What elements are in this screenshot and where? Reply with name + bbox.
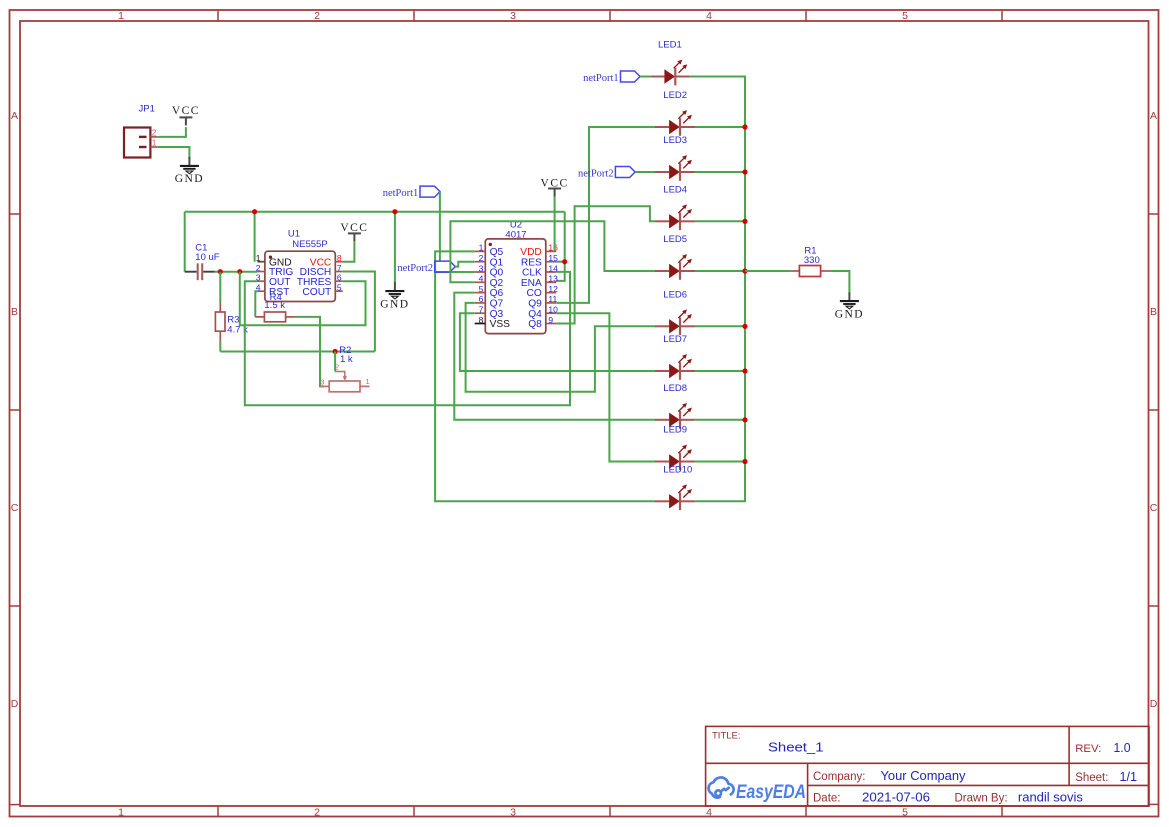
svg-text:LED8: LED8 [663, 383, 687, 394]
U2 pin 1 Q5 [475, 250, 486, 252]
node junction bus LED6 [742, 324, 747, 329]
wire LED2 cathode to bus [695, 126, 746, 128]
wire U2 Q8 to LED4 [556, 206, 655, 323]
node junction TRIG-THRES riser [237, 269, 242, 274]
wire U2 Q7 to LED6 [466, 303, 655, 392]
U2 pin 14 CLK [546, 271, 556, 273]
svg-text:12: 12 [548, 284, 558, 294]
wire U2 Q5 to LED10 [435, 251, 655, 501]
U2 pin 3 Q0 [475, 271, 486, 273]
node junction bus LED7 [742, 368, 747, 373]
potentiometer R2 [329, 381, 360, 392]
wire U2 Q6 to LED8 [454, 293, 655, 420]
wire GND rail horizontal [185, 211, 565, 213]
title block [706, 726, 1149, 806]
svg-text:4: 4 [706, 10, 712, 22]
svg-text:8: 8 [337, 253, 342, 263]
node junction bus LED3 [742, 169, 747, 174]
svg-text:LED5: LED5 [663, 234, 687, 245]
U2 pin 7 Q3 [475, 312, 486, 314]
U1 pin 6 THRES [335, 280, 343, 282]
svg-text:1.0: 1.0 [1114, 740, 1131, 755]
svg-text:netPort2: netPort2 [397, 263, 433, 274]
svg-text:330: 330 [804, 255, 820, 266]
wire netPort1 down [439, 192, 441, 262]
svg-text:11: 11 [548, 294, 557, 304]
U1 pin 7 DISCH [335, 271, 343, 273]
wire LED9 cathode to bus [695, 461, 746, 463]
U1 pin 8 VCC [335, 261, 343, 263]
svg-text:randil sovis: randil sovis [1018, 790, 1084, 805]
svg-text:Q8: Q8 [528, 319, 542, 330]
svg-text:A: A [1150, 110, 1157, 122]
wire U1 RST to R4 [255, 291, 257, 317]
svg-text:Date:: Date: [813, 793, 841, 805]
connector JP1 [124, 128, 150, 158]
svg-text:LED10: LED10 [663, 464, 692, 475]
netPort1 flag (to U2 area) [420, 186, 440, 197]
svg-text:1 k: 1 k [340, 354, 353, 365]
svg-text:LED6: LED6 [663, 289, 687, 300]
svg-text:2021-07-06: 2021-07-06 [862, 790, 930, 805]
wire R1 to GND [831, 271, 850, 292]
svg-text:GND: GND [380, 298, 409, 310]
wire U1 DISCH to R2 rail [343, 272, 375, 352]
wire VCC to U2 VDD [554, 197, 556, 252]
svg-text:1: 1 [366, 377, 370, 386]
svg-text:3: 3 [479, 263, 484, 273]
svg-text:15: 15 [548, 253, 558, 263]
wire U2 Q0 stub [435, 271, 475, 273]
svg-text:B: B [1150, 306, 1157, 318]
node junction C1-R3 [218, 269, 223, 274]
wire LED4 cathode to bus [695, 220, 746, 222]
svg-text:C: C [11, 502, 19, 514]
svg-text:1: 1 [479, 243, 484, 253]
svg-text:D: D [11, 698, 19, 710]
svg-text:6: 6 [337, 273, 342, 283]
svg-text:EasyEDA: EasyEDA [736, 782, 806, 803]
U2 pin 13 ENA [546, 281, 556, 283]
wire R4 to R2 pot pin3 [296, 317, 324, 387]
svg-text:netPort2: netPort2 [578, 168, 614, 179]
svg-text:C: C [1150, 502, 1158, 514]
op-amp U2 4017 body [485, 239, 546, 334]
svg-text:1: 1 [152, 137, 157, 147]
svg-text:REV:: REV: [1075, 743, 1101, 755]
svg-text:10 uF: 10 uF [195, 252, 219, 263]
ground symbol at JP1 [188, 157, 190, 166]
svg-text:5: 5 [902, 10, 908, 22]
EasyEDA logo [709, 777, 734, 797]
ground symbol near U1 [394, 282, 396, 291]
svg-text:GND: GND [175, 173, 204, 185]
wire netPort2 to U2 Q1 [455, 262, 474, 267]
svg-text:6: 6 [479, 294, 484, 304]
svg-text:9: 9 [548, 315, 553, 325]
svg-text:7: 7 [479, 305, 484, 315]
svg-text:netPort1: netPort1 [383, 188, 419, 199]
wire JP1 pin2 to VCC [157, 127, 186, 137]
wire LED cathode bus [690, 77, 745, 502]
wire LED3 cathode to bus [695, 171, 746, 173]
wire U2 Q9 to LED2 [556, 127, 655, 303]
svg-text:LED2: LED2 [663, 90, 687, 101]
svg-text:13: 13 [548, 274, 558, 284]
svg-text:2: 2 [335, 363, 339, 372]
wire netPort1 to LED1 [640, 76, 650, 78]
op-amp U1 NE555P body [265, 251, 335, 301]
capacitor C1 [185, 271, 197, 273]
wire C1 to U1 TRIG [215, 271, 258, 273]
node junction rail-U1pin1 [252, 209, 257, 214]
ground symbol at R1 [848, 292, 850, 301]
node junction RES tap [562, 259, 567, 264]
svg-text:1.5 k: 1.5 k [264, 300, 285, 311]
U1 pin 4 RST [257, 290, 265, 292]
netPort2 flag (at U2 Q1) [435, 261, 456, 272]
wire netPort2 to LED3 [635, 171, 655, 173]
U2 pin 12 CO [546, 292, 556, 294]
svg-text:1/1: 1/1 [1120, 769, 1138, 784]
wire GND rail to ground symbol [394, 212, 396, 283]
svg-text:Sheet_1: Sheet_1 [768, 740, 824, 755]
node junction bus LED2 [742, 124, 747, 129]
netPort2 flag at LED3 [615, 167, 635, 178]
svg-text:LED3: LED3 [663, 135, 687, 146]
wire R2 wiper drop [334, 352, 336, 372]
svg-text:COUT: COUT [302, 287, 331, 298]
U2 pin 2 Q1 [475, 261, 486, 263]
netPort1 flag at LED1 [621, 71, 641, 82]
node junction R2 wiper [333, 349, 338, 354]
U2 pin 8 VSS [475, 323, 486, 325]
svg-text:16: 16 [548, 243, 558, 253]
resistor R3 [219, 272, 221, 303]
svg-text:JP1: JP1 [139, 104, 155, 115]
svg-text:VSS: VSS [490, 319, 511, 330]
wire U2 Q2 to LED5 [450, 221, 655, 282]
svg-text:4: 4 [479, 274, 484, 284]
svg-text:2: 2 [256, 263, 261, 273]
svg-text:7: 7 [337, 263, 342, 273]
svg-text:B: B [11, 306, 18, 318]
U2 pin 15 RES [546, 261, 556, 263]
wire LED6 cathode to bus [695, 325, 746, 327]
wire LED8 cathode to bus [695, 419, 746, 421]
wire U2 pin15 RES tap [556, 261, 565, 263]
svg-text:2: 2 [314, 10, 320, 22]
svg-text:2: 2 [314, 806, 320, 818]
svg-text:A: A [11, 110, 18, 122]
svg-text:Drawn By:: Drawn By: [955, 793, 1008, 805]
U2 pin 9 Q8 [546, 323, 556, 325]
node junction bus LED5 [742, 268, 747, 273]
svg-text:LED7: LED7 [663, 334, 687, 345]
wire U1 OUT to U2 CLK [245, 272, 570, 405]
wire U2 Q3 to LED7 [460, 313, 655, 371]
resistor R1 [790, 270, 799, 272]
svg-text:8: 8 [479, 315, 484, 325]
wire LED5 cathode to bus [695, 270, 746, 272]
svg-text:NE555P: NE555P [292, 239, 327, 250]
svg-text:LED1: LED1 [658, 40, 682, 51]
svg-text:TITLE:: TITLE: [712, 731, 741, 742]
resistor R4 [255, 316, 264, 318]
wire LED7 cathode to bus [695, 370, 746, 372]
svg-text:Company:: Company: [813, 771, 865, 783]
wire U1 THRES to TRIG link [240, 272, 366, 326]
wire U1 pin8 to VCC [343, 241, 355, 261]
wire GND rail down to U2 RES/ENA [556, 212, 565, 281]
svg-text:GND: GND [835, 308, 864, 320]
svg-text:14: 14 [548, 263, 558, 273]
wire JP1 pin1 to GND [157, 147, 189, 158]
node junction bus LED8 [742, 417, 747, 422]
svg-text:2: 2 [152, 127, 157, 137]
svg-text:1: 1 [118, 10, 124, 22]
U2 pin 6 Q7 [475, 302, 486, 304]
U2 pin 10 Q4 [546, 312, 556, 314]
svg-text:4017: 4017 [505, 229, 526, 240]
svg-text:5: 5 [337, 283, 342, 293]
svg-text:3: 3 [510, 806, 516, 818]
svg-text:2: 2 [479, 253, 484, 263]
node junction bus LED9 [742, 459, 747, 464]
wire U2 Q4 to LED9 [556, 313, 655, 461]
svg-text:3: 3 [510, 10, 516, 22]
wire GND rail to U1 pin1 [254, 212, 256, 262]
node junction rail-GND [392, 209, 397, 214]
wire R3 to DISCH rail [220, 351, 375, 353]
svg-text:VCC: VCC [172, 105, 200, 117]
svg-text:Your Company: Your Company [881, 768, 966, 783]
svg-text:D: D [1150, 698, 1158, 710]
U2 pin 4 Q2 [475, 281, 486, 283]
svg-text:LED9: LED9 [663, 425, 687, 436]
svg-text:1: 1 [118, 806, 124, 818]
svg-text:4: 4 [706, 806, 712, 818]
svg-text:U1: U1 [288, 229, 300, 240]
node junction bus LED4 [742, 219, 747, 224]
svg-text:netPort1: netPort1 [583, 73, 619, 84]
svg-text:1: 1 [256, 253, 261, 263]
svg-text:Sheet:: Sheet: [1075, 772, 1108, 784]
svg-text:LED4: LED4 [663, 184, 687, 195]
U2 pin 5 Q6 [475, 292, 486, 294]
U1 pin 3 OUT [257, 280, 265, 282]
svg-text:3: 3 [320, 377, 324, 386]
U2 pin 16 VDD [546, 250, 556, 252]
svg-text:5: 5 [479, 284, 484, 294]
wire bus to R1 [745, 270, 790, 272]
U1 pin 2 TRIG [257, 271, 265, 273]
svg-text:5: 5 [902, 806, 908, 818]
wire GND rail to C1 left [184, 212, 186, 272]
U2 pin 11 Q9 [546, 302, 556, 304]
U1 pin 1 GND [257, 261, 265, 263]
U1 pin 5 COUT [335, 290, 343, 292]
